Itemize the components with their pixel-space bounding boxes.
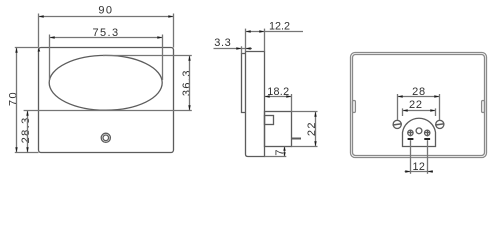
dim arrows 28 bbox=[398, 95, 403, 97]
side view front lip 3.3 bbox=[242, 54, 246, 113]
svg-text:22: 22 bbox=[409, 99, 423, 111]
ext line 75.3 right bbox=[162, 35, 164, 81]
svg-text:90: 90 bbox=[98, 5, 113, 17]
ext line 28 left bbox=[397, 94, 399, 120]
ext line 75.3 left bbox=[49, 35, 51, 81]
dim arrows 7 bbox=[283, 147, 285, 151]
dim arrows 3.3 outside bbox=[236, 47, 241, 49]
ext line 90 left bbox=[38, 14, 40, 48]
ext line 70 top bbox=[15, 47, 39, 49]
ext line ellipse top reference bbox=[103, 55, 192, 57]
side view case body bbox=[246, 52, 265, 157]
dim arrows 18.2 bbox=[265, 95, 270, 97]
left terminal screw bbox=[408, 130, 413, 135]
left terminal stud bbox=[408, 138, 414, 140]
dim arrows 22 side bbox=[314, 112, 316, 117]
back view inner case line bbox=[353, 55, 485, 156]
dim line 12 with tails bbox=[405, 171, 433, 173]
dim line 90 bbox=[39, 16, 174, 18]
ext line 28 right bbox=[439, 94, 441, 120]
back view left side tab bbox=[353, 101, 356, 113]
left mounting screw bbox=[393, 120, 401, 128]
svg-text:3.3: 3.3 bbox=[214, 37, 231, 49]
ext line 22 back left bbox=[402, 108, 404, 116]
back view right side tab bbox=[482, 101, 485, 113]
side view rear cover bbox=[265, 112, 292, 147]
dim line 7 bbox=[284, 147, 286, 157]
dim arrows 75.3 bbox=[50, 36, 55, 38]
dim line 12.2 with leader bbox=[246, 31, 304, 33]
back view outer case bbox=[351, 53, 487, 158]
dim line 70 bbox=[16, 48, 18, 153]
corner tick arrow bbox=[38, 48, 41, 52]
dim line 22 back bbox=[403, 110, 436, 112]
side view terminal stud bbox=[292, 138, 302, 140]
dim line 36.3 bbox=[189, 56, 191, 111]
ext line 18.2 right bbox=[291, 94, 293, 112]
front view bezel outline 90x70 bbox=[39, 48, 174, 153]
ext line 12 left / stud wire bbox=[410, 140, 412, 174]
ext line 12 right / stud wire bbox=[427, 140, 429, 174]
ext line 22 top bbox=[292, 111, 318, 113]
dim arrows 36.3 bbox=[188, 56, 190, 61]
front dial window ellipse 75.3x36.3 bbox=[49, 55, 162, 110]
svg-text:36.3: 36.3 bbox=[181, 69, 193, 96]
leader line 3.3 bbox=[214, 48, 253, 50]
ext line 12.2 left bbox=[245, 29, 247, 52]
dim line 22 side bbox=[315, 112, 317, 147]
svg-text:12.2: 12.2 bbox=[269, 20, 290, 32]
dim arrows 12.2 bbox=[246, 30, 251, 32]
right terminal screw bbox=[425, 130, 430, 135]
ext line 90 right bbox=[173, 14, 175, 48]
dim arrows 12 outside bbox=[405, 170, 410, 172]
ext line ellipse bottom reference bbox=[24, 110, 192, 112]
dim arrows 70 bbox=[15, 48, 17, 53]
dim line 18.2 bbox=[265, 96, 292, 98]
right mounting screw bbox=[436, 120, 444, 128]
terminal block dome bbox=[403, 118, 436, 146]
ext line 12.2 right bbox=[264, 29, 266, 52]
dim line 28 bbox=[398, 96, 440, 98]
front zero-adjust screw bbox=[101, 133, 110, 142]
svg-text:70: 70 bbox=[8, 91, 20, 106]
dim arrows 22 back bbox=[403, 109, 408, 111]
dim arrows 90 bbox=[39, 15, 44, 17]
side view cover notch bbox=[265, 116, 274, 125]
ext line 70/28.3 bottom bbox=[15, 152, 39, 154]
svg-text:28.3: 28.3 bbox=[20, 116, 32, 143]
dim line 75.3 bbox=[50, 37, 163, 39]
right terminal stud bbox=[424, 138, 430, 140]
ext line 3.3 left bbox=[241, 46, 243, 53]
ext line 7 bottom bbox=[265, 156, 287, 158]
dim line 28.3 bbox=[27, 111, 29, 153]
center pivot hole bbox=[416, 128, 422, 134]
ext line 22 back right bbox=[435, 108, 437, 116]
dim arrows 28.3 bbox=[26, 111, 28, 116]
svg-text:22: 22 bbox=[306, 121, 318, 136]
ext line 22 bottom bbox=[292, 146, 318, 148]
